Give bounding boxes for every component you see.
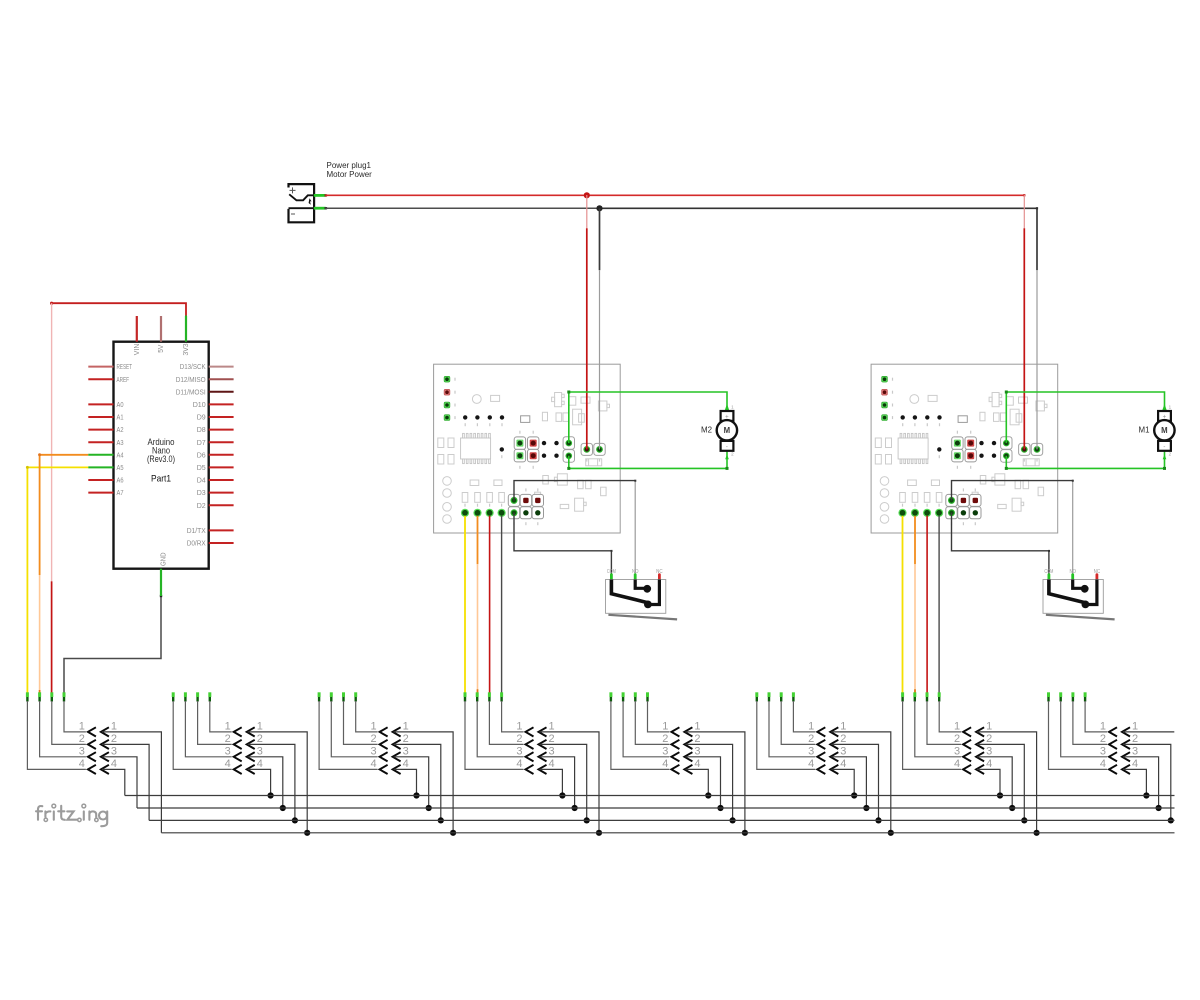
- driver board 1 (with switch SW1, wires): [434, 195, 737, 693]
- svg-text:2: 2: [225, 733, 231, 745]
- pin A1: [88, 416, 113, 418]
- pin A7: [88, 492, 113, 494]
- pin VIN: [136, 316, 138, 342]
- J1L pin 4: [26, 692, 29, 697]
- J6R pin 3: [830, 752, 838, 761]
- pin D6: [209, 454, 234, 456]
- svg-text:D0/RX: D0/RX: [187, 539, 206, 548]
- svg-text:Part1: Part1: [151, 474, 171, 485]
- J1R pin 1: [101, 727, 109, 736]
- wire red vertical to header: [51, 581, 53, 693]
- pin D4: [209, 479, 234, 481]
- wire GND from Arduino: [64, 596, 161, 693]
- J3L pin 4: [318, 692, 321, 697]
- J4R pin 3: [539, 752, 547, 761]
- svg-text:2: 2: [954, 733, 960, 745]
- J3L pin 2: [342, 692, 345, 697]
- header pair group 1: [27, 692, 161, 833]
- svg-text:D9: D9: [197, 413, 206, 422]
- junction bus: [559, 792, 565, 798]
- J5R pin 2: [684, 740, 692, 749]
- svg-text:4: 4: [257, 758, 263, 770]
- J5L pin 2: [634, 692, 637, 697]
- svg-text:4: 4: [225, 758, 231, 770]
- junction bus: [1143, 792, 1149, 798]
- junction bus: [851, 792, 857, 798]
- svg-text:4: 4: [808, 758, 814, 770]
- svg-text:GND: GND: [158, 553, 167, 567]
- J8L pin 1: [1084, 692, 1087, 697]
- J7L pin 1: [938, 692, 941, 697]
- pin RESET: [88, 366, 113, 368]
- svg-text:D13/SCK: D13/SCK: [180, 362, 206, 371]
- junction bus: [413, 792, 419, 798]
- svg-text:2: 2: [549, 733, 555, 745]
- svg-text:D12/MISO: D12/MISO: [176, 375, 206, 384]
- svg-text:D1/TX: D1/TX: [187, 526, 206, 535]
- wire J1R pin2 to bus: [102, 744, 149, 820]
- J2L pin 4: [172, 692, 175, 697]
- wire J7R pin4 to bus: [977, 769, 1000, 795]
- corner cap red board2: [1023, 194, 1025, 196]
- svg-text:2: 2: [1132, 733, 1138, 745]
- wire J4R pin2 to bus: [540, 744, 587, 820]
- svg-text:3: 3: [808, 746, 814, 758]
- pin D12/MISO: [209, 378, 234, 380]
- junction bus: [1034, 830, 1040, 836]
- svg-text:3: 3: [954, 746, 960, 758]
- J2L pin 3: [184, 692, 187, 697]
- plug pin - (green): [314, 207, 326, 210]
- fritzing logo: [36, 804, 107, 826]
- svg-text:4: 4: [403, 758, 409, 770]
- svg-text:2: 2: [257, 733, 263, 745]
- J6L pin 3: [768, 692, 771, 697]
- svg-text:4: 4: [840, 758, 846, 770]
- svg-text:(Rev3.0): (Rev3.0): [147, 454, 175, 464]
- svg-text:2: 2: [840, 733, 846, 745]
- Arduino Nano Part1: [26, 302, 234, 694]
- J6L pin 1: [792, 692, 795, 697]
- pin A6: [88, 479, 113, 481]
- junction bus: [268, 792, 274, 798]
- svg-text:1: 1: [79, 721, 85, 733]
- junction bus: [875, 817, 881, 823]
- J4L pin 4: [464, 692, 467, 697]
- svg-text:Power plug1: Power plug1: [327, 161, 372, 170]
- svg-text:4: 4: [79, 758, 85, 770]
- svg-text:4: 4: [549, 758, 555, 770]
- pin D2: [209, 504, 234, 506]
- power plug J1: [289, 184, 315, 222]
- pin D7: [209, 441, 234, 443]
- wire orange A4: [40, 455, 89, 575]
- wire V+ red horizontal: [326, 194, 1025, 196]
- J8R pin 2: [1122, 740, 1130, 749]
- svg-text:1: 1: [549, 721, 555, 733]
- J2R pin 1: [247, 727, 255, 736]
- junction bus: [280, 805, 286, 811]
- J6R pin 4: [830, 765, 838, 774]
- pin A5: [88, 466, 113, 468]
- label Arduino Nano (Rev3.0): [147, 437, 175, 484]
- J4L pin 1: [500, 692, 503, 697]
- header pair group 5: [611, 692, 748, 836]
- wire J6R pin4 to bus: [831, 769, 854, 795]
- J1L pin 3: [38, 692, 41, 697]
- J6L pin 4: [755, 692, 758, 697]
- svg-text:2: 2: [986, 733, 992, 745]
- svg-text:4: 4: [370, 758, 376, 770]
- J5R pin 4: [684, 765, 692, 774]
- bus net 1 (pin4 rail): [125, 795, 1175, 797]
- J4R pin 2: [539, 740, 547, 749]
- svg-text:1: 1: [516, 721, 522, 733]
- J8R pin 3: [1122, 752, 1130, 761]
- svg-text:D3: D3: [197, 488, 206, 497]
- junction bus: [888, 830, 894, 836]
- junction bus: [1021, 817, 1027, 823]
- svg-text:3: 3: [111, 746, 117, 758]
- J3R pin 4: [393, 765, 401, 774]
- junction bus: [1168, 817, 1174, 823]
- junction bus: [426, 805, 432, 811]
- pin AREF: [88, 378, 113, 380]
- Arduino body: [114, 342, 209, 569]
- junction bus: [438, 817, 444, 823]
- svg-text:3: 3: [694, 746, 700, 758]
- svg-text:D2: D2: [197, 501, 206, 510]
- svg-text:1: 1: [257, 721, 263, 733]
- svg-text:2: 2: [694, 733, 700, 745]
- J5R pin 1: [684, 727, 692, 736]
- pin D1/TX: [209, 529, 234, 531]
- header pair group 4: [465, 692, 602, 836]
- svg-text:3: 3: [257, 746, 263, 758]
- svg-text:3: 3: [403, 746, 409, 758]
- J5L pin 1: [646, 692, 649, 697]
- plug pin + (green): [314, 194, 326, 197]
- svg-text:1: 1: [808, 721, 814, 733]
- wire J2R pin2 to bus: [248, 744, 295, 820]
- svg-text:1: 1: [370, 721, 376, 733]
- wire J5R pin1 to bus: [685, 732, 745, 833]
- wire J8R pin3 to bus: [1123, 757, 1159, 808]
- wire J4R pin4 to bus: [540, 769, 563, 795]
- svg-text:2: 2: [516, 733, 522, 745]
- svg-text:3: 3: [79, 746, 85, 758]
- wire J3R pin4 to bus: [394, 769, 417, 795]
- J7R pin 3: [976, 752, 984, 761]
- svg-text:4: 4: [1100, 758, 1106, 770]
- J6R pin 1: [830, 727, 838, 736]
- wire J1R pin3 to bus: [102, 757, 137, 808]
- J8L pin 4: [1047, 692, 1050, 697]
- svg-text:D4: D4: [197, 476, 206, 485]
- J5L pin 4: [609, 692, 612, 697]
- svg-text:AREF: AREF: [117, 375, 130, 384]
- pin D10: [209, 403, 234, 405]
- junction bus: [997, 792, 1003, 798]
- svg-text:1: 1: [225, 721, 231, 733]
- J1R pin 2: [101, 740, 109, 749]
- pin D9: [209, 416, 234, 418]
- svg-text:A6: A6: [117, 476, 124, 485]
- junction V+: [584, 192, 590, 198]
- svg-text:2: 2: [111, 733, 117, 745]
- svg-text:4: 4: [516, 758, 522, 770]
- svg-text:VIN: VIN: [132, 344, 141, 356]
- wire 3V3 red top: [52, 303, 186, 315]
- junction bus: [450, 830, 456, 836]
- J7R pin 2: [976, 740, 984, 749]
- svg-text:A1: A1: [117, 413, 124, 422]
- wire J6R pin3 to bus: [831, 757, 866, 808]
- svg-text:M1: M1: [1139, 425, 1150, 435]
- svg-text:4: 4: [986, 758, 992, 770]
- wire J4R pin1 to bus: [540, 732, 600, 833]
- junction bus: [730, 817, 736, 823]
- plug arrow mark: [309, 198, 312, 205]
- wire GND horizontal: [326, 207, 600, 209]
- svg-text:2: 2: [403, 733, 409, 745]
- driver board 2 (with switch SW2, wires): [871, 195, 1175, 693]
- svg-text:3: 3: [370, 746, 376, 758]
- wire J1R pin1 to bus: [102, 732, 161, 833]
- svg-text:3: 3: [516, 746, 522, 758]
- wire J7R pin1 to bus: [977, 732, 1037, 833]
- svg-text:3: 3: [986, 746, 992, 758]
- wire J1R pin4 to bus: [102, 769, 125, 795]
- wire J6R pin1 to bus: [831, 732, 891, 833]
- bus net 3 (pin2 rail): [149, 819, 1174, 821]
- wire J2R pin4 to bus: [248, 769, 271, 795]
- wire J8R pin2 to bus: [1123, 744, 1171, 820]
- wire J3R pin3 to bus: [394, 757, 429, 808]
- J5R pin 3: [684, 752, 692, 761]
- junction bus: [1009, 805, 1015, 811]
- svg-text:A2: A2: [117, 425, 124, 434]
- wire J5R pin2 to bus: [685, 744, 732, 820]
- J1L pin 1: [63, 692, 66, 697]
- J3R pin 1: [393, 727, 401, 736]
- svg-text:D7: D7: [197, 438, 206, 447]
- svg-text:3: 3: [1132, 746, 1138, 758]
- J1R pin 3: [101, 752, 109, 761]
- svg-text:A5: A5: [117, 463, 124, 472]
- J2R pin 3: [247, 752, 255, 761]
- svg-text:A0: A0: [117, 400, 124, 409]
- junction bus: [863, 805, 869, 811]
- pin 5V: [160, 316, 162, 342]
- J7R pin 4: [976, 765, 984, 774]
- svg-text:4: 4: [662, 758, 668, 770]
- J8L pin 3: [1059, 692, 1062, 697]
- junction bus: [1156, 805, 1162, 811]
- svg-text:1: 1: [694, 721, 700, 733]
- J3R pin 2: [393, 740, 401, 749]
- svg-text:D6: D6: [197, 450, 206, 459]
- J7L pin 4: [901, 692, 904, 697]
- J3L pin 3: [330, 692, 333, 697]
- svg-text:1: 1: [111, 721, 117, 733]
- J4L pin 3: [476, 692, 479, 697]
- J2L pin 2: [196, 692, 199, 697]
- wire J5R pin3 to bus: [685, 757, 720, 808]
- header pair group 7: [903, 692, 1040, 836]
- svg-text:1: 1: [403, 721, 409, 733]
- pin A0: [88, 403, 113, 405]
- bus net 4 (pin1 rail): [161, 832, 1174, 834]
- svg-text:D8: D8: [197, 425, 206, 434]
- J2L pin 1: [208, 692, 211, 697]
- wire J3R pin2 to bus: [394, 744, 441, 820]
- svg-text:2: 2: [662, 733, 668, 745]
- J8L pin 2: [1071, 692, 1074, 697]
- pin D8: [209, 429, 234, 431]
- svg-text:4: 4: [1132, 758, 1138, 770]
- junction bus: [705, 792, 711, 798]
- junction bus: [292, 817, 298, 823]
- svg-text:1: 1: [954, 721, 960, 733]
- J4R pin 4: [539, 765, 547, 774]
- svg-text:2: 2: [1100, 733, 1106, 745]
- J7L pin 3: [913, 692, 916, 697]
- J8R pin 1: [1122, 727, 1130, 736]
- svg-text:4: 4: [694, 758, 700, 770]
- svg-text:1: 1: [1132, 721, 1138, 733]
- wire J2R pin1 to bus: [248, 732, 308, 833]
- wire J7R pin2 to bus: [977, 744, 1024, 820]
- svg-text:3: 3: [840, 746, 846, 758]
- svg-text:4: 4: [111, 758, 117, 770]
- wire J4R pin3 to bus: [540, 757, 575, 808]
- pin A4: [88, 454, 113, 456]
- J3L pin 1: [354, 692, 357, 697]
- svg-text:A3: A3: [117, 438, 124, 447]
- wire yellow A5: [27, 467, 88, 693]
- header pair group 6: [757, 692, 894, 836]
- wire J3R pin1 to bus: [394, 732, 454, 833]
- pin 3V3: [185, 316, 187, 342]
- pin D13/SCK: [209, 366, 234, 368]
- J7R pin 1: [976, 727, 984, 736]
- svg-text:RESET: RESET: [117, 362, 133, 371]
- svg-text:2: 2: [79, 733, 85, 745]
- svg-text:1: 1: [1100, 721, 1106, 733]
- J4R pin 1: [539, 727, 547, 736]
- svg-text:1: 1: [986, 721, 992, 733]
- pin D0/RX: [209, 542, 234, 544]
- junction bus: [596, 830, 602, 836]
- junction bus: [584, 817, 590, 823]
- svg-text:1: 1: [840, 721, 846, 733]
- J7L pin 2: [926, 692, 929, 697]
- svg-text:A7: A7: [117, 488, 124, 497]
- pin A3: [88, 441, 113, 443]
- svg-text:2: 2: [808, 733, 814, 745]
- J3R pin 3: [393, 752, 401, 761]
- svg-text:5V: 5V: [156, 345, 165, 353]
- svg-text:A4: A4: [117, 450, 124, 459]
- corner cap black board2: [1036, 207, 1038, 209]
- J1R pin 4: [101, 765, 109, 774]
- pin D3: [209, 492, 234, 494]
- pin GND: [160, 569, 162, 596]
- J1L pin 2: [50, 692, 53, 697]
- svg-text:2: 2: [370, 733, 376, 745]
- svg-text:3: 3: [225, 746, 231, 758]
- svg-text:1: 1: [662, 721, 668, 733]
- svg-text:D5: D5: [197, 463, 206, 472]
- svg-text:D11/MOSI: D11/MOSI: [176, 387, 206, 396]
- svg-text:3: 3: [549, 746, 555, 758]
- J4L pin 2: [488, 692, 491, 697]
- svg-text:Motor Power: Motor Power: [327, 170, 373, 179]
- J6R pin 2: [830, 740, 838, 749]
- wire J8R pin4 to bus: [1123, 769, 1146, 795]
- svg-text:3: 3: [662, 746, 668, 758]
- junction bus: [304, 830, 310, 836]
- wire J2R pin3 to bus: [248, 757, 283, 808]
- J5L pin 3: [622, 692, 625, 697]
- pin D5: [209, 466, 234, 468]
- wire J6R pin2 to bus: [831, 744, 878, 820]
- header pair group 3: [319, 692, 456, 836]
- junction GND: [596, 205, 602, 211]
- J8R pin 4: [1122, 765, 1130, 774]
- svg-text:3: 3: [1100, 746, 1106, 758]
- pin A2: [88, 429, 113, 431]
- J6L pin 2: [780, 692, 783, 697]
- svg-text:4: 4: [954, 758, 960, 770]
- junction bus: [742, 830, 748, 836]
- wire J7R pin3 to bus: [977, 757, 1012, 808]
- svg-text:D10: D10: [193, 400, 206, 409]
- header pair group 8: [1049, 692, 1175, 823]
- J2R pin 2: [247, 740, 255, 749]
- bus net 2 (pin3 rail): [137, 807, 1175, 809]
- pin D11/MOSI: [209, 391, 234, 393]
- svg-text:3V3: 3V3: [181, 344, 190, 356]
- wire pink vertical: [51, 303, 53, 581]
- junction bus: [572, 805, 578, 811]
- wire J5R pin4 to bus: [685, 769, 708, 795]
- junction bus: [717, 805, 723, 811]
- J2R pin 4: [247, 765, 255, 774]
- svg-text:M2: M2: [701, 425, 712, 435]
- header pair group 2: [173, 692, 310, 836]
